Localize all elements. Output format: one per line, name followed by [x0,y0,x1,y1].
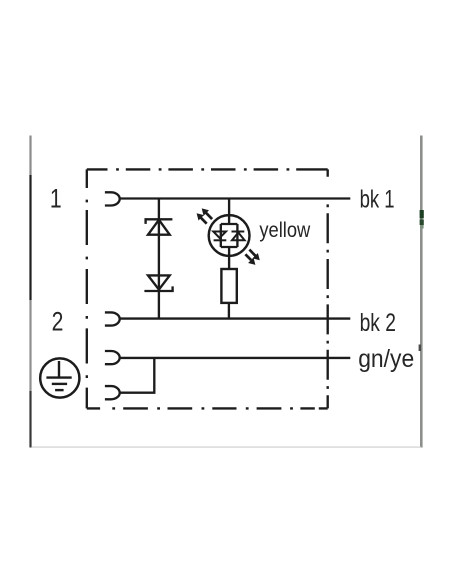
wire gn/ye (pin3 to label) [119,357,350,359]
pin 1 contact [105,192,120,205]
connector housing outline (dash-dot box) [87,169,328,408]
wire pin4 bridged to gn/ye wire [119,358,154,393]
pin 2 contact [105,312,120,325]
wire resistor to bk2 wire [228,303,230,319]
label bk 1 [360,186,395,214]
suppressor branch wire: bk1 wire down to Z1 [158,199,160,319]
top edge [87,168,328,170]
pin 4 contact (PE bridge) [105,386,120,399]
LED branch wire: bk1 wire down to LED [228,199,230,225]
label yellow [259,219,311,242]
svg-text:bk 1: bk 1 [360,186,395,214]
svg-text:gn/ye: gn/ye [358,345,414,373]
resistor R1 [221,269,236,303]
zener diode Z1 (cathode up) [146,219,173,234]
LED U1 yellow (circle, anti-parallel chips, light arrows) [197,208,260,265]
svg-text:2: 2 [52,307,64,337]
pin 3 contact (PE) [105,351,120,364]
svg-text:bk 2: bk 2 [360,309,396,337]
wire LED to resistor [228,247,230,269]
right edge [327,169,329,408]
protective earth (ground) symbol [40,358,79,397]
svg-text:1: 1 [50,184,62,214]
wire bk2 (pin2 to label) [119,317,350,319]
pin label 2 [52,307,64,337]
page scan edges (decorative) drawn first [29,136,31,176]
svg-text:yellow: yellow [259,219,311,242]
zener diode Z2 (cathode down) [144,275,172,291]
bottom edge [87,407,328,409]
wire bk1 (pin1 to label) [119,197,350,199]
label bk 2 [360,309,396,337]
label gn/ye [358,345,414,373]
left edge [86,169,88,408]
pin label 1 [50,184,62,214]
